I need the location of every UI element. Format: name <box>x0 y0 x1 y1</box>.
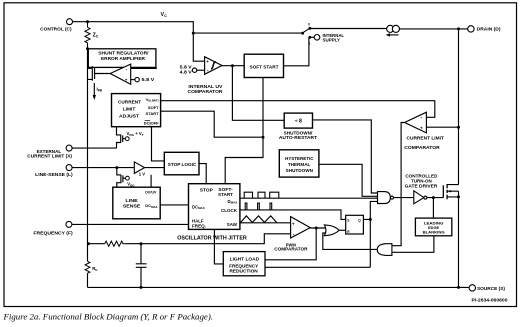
resistor frequency filter <box>105 241 126 246</box>
wire VC rail from CONTROL pin to UV comparator + input <box>73 22 205 62</box>
svg-text:COMPARATOR: COMPARATOR <box>404 145 440 150</box>
wire UV output down to divide-by-8 input <box>232 66 284 121</box>
label shutdown auto-restart <box>279 130 318 139</box>
wire VI(LIMIT) to current limit comparator <box>161 101 435 118</box>
svg-text:REDUCTION: REDUCTION <box>230 269 258 274</box>
wire DMAX output to NAND <box>240 197 378 199</box>
op-amp PWM comparator <box>291 217 311 238</box>
svg-text:THERMAL: THERMAL <box>288 162 311 167</box>
transistor output MOSFET Q1 <box>443 184 458 199</box>
pin DRAIN (D) <box>468 26 501 32</box>
node 5.8V/4.8V threshold terminal <box>180 64 205 74</box>
switch supply selector <box>301 22 311 45</box>
node source rail junction <box>457 286 460 289</box>
svg-text:SENSE: SENSE <box>123 203 141 208</box>
node line sense tap <box>115 166 118 169</box>
wire divide-by-8 output to NAND <box>313 120 378 193</box>
capacitor filter <box>136 244 147 288</box>
svg-text:+: + <box>206 59 209 64</box>
svg-text:PI-2634-060600: PI-2634-060600 <box>472 297 509 302</box>
wire LLFR to PWM output node <box>265 228 316 260</box>
svg-text:COMPARATOR: COMPARATOR <box>274 246 307 251</box>
latch PWM flip-flop <box>346 215 364 234</box>
svg-text:DRAIN (D): DRAIN (D) <box>477 27 501 32</box>
wire thermal shutdown to NAND <box>319 164 378 196</box>
svg-text:FREQUENCY (F): FREQUENCY (F) <box>33 231 73 236</box>
wire top drain rail <box>310 28 468 30</box>
wire comparator output to AND <box>392 123 405 246</box>
node latch Q junction <box>369 218 372 221</box>
wire left vertical control bus <box>87 43 89 261</box>
wire X pin to clamp <box>72 147 116 149</box>
wire RE to bottom rail <box>87 274 89 288</box>
op-amp error amplifier <box>110 64 131 84</box>
node current sense tap <box>457 126 460 129</box>
svg-text:SOFT START: SOFT START <box>250 64 279 69</box>
wire L pin to 1V buffer <box>72 167 134 169</box>
buffer 1V line sense <box>134 162 145 177</box>
node capacitor bottom <box>140 286 143 289</box>
node PWM output junction <box>315 227 318 230</box>
buffer gate driver <box>414 191 427 204</box>
svg-text:LIMIT: LIMIT <box>123 107 136 112</box>
wire buffer to stop logic <box>145 167 165 169</box>
svg-text:START: START <box>146 111 160 116</box>
current source ID <box>386 25 400 36</box>
wire PWM output to OR gate <box>310 227 326 229</box>
label internal UV comparator <box>188 84 224 94</box>
svg-text:SOFT: SOFT <box>148 105 159 110</box>
wire latch Q to NAND and LLFR <box>363 201 377 267</box>
svg-text:ERROR AMPLIFIER: ERROR AMPLIFIER <box>101 56 146 61</box>
node 5.8 V reference terminal <box>135 77 154 82</box>
svg-text:SOURCE (S): SOURCE (S) <box>477 286 506 291</box>
pin FREQUENCY (F) <box>33 221 73 235</box>
svg-text:BLANKING: BLANKING <box>423 229 445 234</box>
wire CLA soft start to junction <box>161 111 263 137</box>
svg-text:SUPPLY: SUPPLY <box>323 38 341 43</box>
wire error amp inverting input to box <box>131 67 157 68</box>
svg-text:CURRENT: CURRENT <box>118 100 141 105</box>
box divide by 8 <box>284 113 312 128</box>
svg-text:0: 0 <box>308 22 310 26</box>
wire OV/UV to stop logic <box>150 175 152 187</box>
svg-text:LIGHT LOAD: LIGHT LOAD <box>230 257 260 262</box>
node capacitor top <box>140 242 143 245</box>
nand-gate driver logic <box>378 192 394 204</box>
wire source vertical to rail <box>458 191 460 287</box>
node shunt box corner junction <box>86 47 89 50</box>
wire soft start bottom to oscillator soft-start input <box>225 78 263 184</box>
resistor ZC <box>85 22 90 44</box>
box CURRENT LIMIT ADJUST <box>112 94 161 127</box>
svg-text:COMPARATOR: COMPARATOR <box>188 89 224 94</box>
svg-text:SHUNT REGULATOR/: SHUNT REGULATOR/ <box>98 51 149 56</box>
node MOSFET body contact <box>449 190 451 192</box>
box STOP LOGIC <box>164 152 199 175</box>
label current limit comparator <box>404 136 444 151</box>
resistor RE <box>85 261 90 273</box>
box LIGHT LOAD FREQUENCY REDUCTION <box>223 252 265 276</box>
and-gate current limit AND (points left) <box>377 244 392 256</box>
pin EXTERNAL CURRENT LIMIT (X) <box>27 145 72 158</box>
op-amp current limit comparator <box>405 112 427 133</box>
waveform DMAX square wave <box>244 192 279 198</box>
label controlled turn-on gate driver <box>405 174 439 189</box>
svg-text:÷ 8: ÷ 8 <box>295 119 302 125</box>
node resistor junction <box>87 242 90 245</box>
svg-text:1: 1 <box>309 41 311 45</box>
wire comparator + input from drain sense <box>426 126 458 128</box>
wire drain vertical <box>458 29 460 185</box>
wire frequency set RC to PWM inverting input <box>88 234 290 244</box>
svg-text:OSCILLATOR WITH JITTER: OSCILLATOR WITH JITTER <box>177 235 247 241</box>
arrow IFB feedback current <box>93 83 103 100</box>
transistor line sense clamp VBG <box>117 168 136 188</box>
svg-text:GATE DRIVER: GATE DRIVER <box>405 184 439 189</box>
svg-text:+: + <box>292 221 295 226</box>
node MOSFET source junction <box>457 195 460 198</box>
svg-text:+: + <box>125 78 128 83</box>
wire CLOCK output to latch set <box>240 210 346 220</box>
wire UV comparator output to soft start <box>222 65 244 67</box>
svg-text:HYSTERETIC: HYSTERETIC <box>285 156 313 161</box>
wire stop logic output to oscillator <box>199 164 206 184</box>
svg-text:CURRENT LIMIT: CURRENT LIMIT <box>407 136 445 141</box>
node ZC tap <box>86 20 89 23</box>
svg-text:4.8 V: 4.8 V <box>180 69 192 74</box>
waveform clock pulses <box>245 203 272 210</box>
node VC junction <box>192 32 195 35</box>
box LEADING EDGE BLANKING <box>415 218 451 236</box>
op-amp internal UV comparator U2 <box>205 57 222 75</box>
or-gate latch reset OR <box>324 225 339 236</box>
svg-text:STOP: STOP <box>200 187 213 192</box>
box LINE SENSE <box>113 187 160 219</box>
box HYSTERETIC THERMAL SHUTDOWN <box>279 150 319 177</box>
wire AND output to OR input <box>323 233 377 249</box>
node drain junction <box>457 27 460 30</box>
svg-text:STOP LOGIC: STOP LOGIC <box>168 162 197 167</box>
pin CONTROL (C) <box>40 19 72 32</box>
wire SAW output to PWM comparator <box>240 222 291 224</box>
wire to supply switch <box>193 32 302 34</box>
label PWM comparator <box>274 243 307 252</box>
svg-text:S: S <box>347 219 349 223</box>
wire gate node to LEB <box>432 198 434 219</box>
waveform sawtooth <box>241 216 277 223</box>
svg-text:CLOCK: CLOCK <box>221 208 238 213</box>
svg-text:OV/UV: OV/UV <box>145 190 157 194</box>
svg-text:AUTO-RESTART: AUTO-RESTART <box>279 135 318 140</box>
svg-text:START: START <box>218 192 233 197</box>
transistor external limit clamp VBG+VT <box>117 127 144 148</box>
svg-text:SHUTDOWN: SHUTDOWN <box>286 168 313 173</box>
wire LLFR to latch node <box>265 266 370 268</box>
svg-text:CURRENT LIMIT (X): CURRENT LIMIT (X) <box>27 153 72 158</box>
pin LINE-SENSE (L) <box>35 165 73 177</box>
svg-text:5.8 V: 5.8 V <box>142 77 155 82</box>
svg-text:LINE-SENSE (L): LINE-SENSE (L) <box>35 172 73 177</box>
wire error amp + input <box>131 79 135 81</box>
wire CLA to stop logic <box>152 127 165 161</box>
wire soft start output to supply switch node <box>284 37 309 66</box>
wire LEB to AND input <box>392 236 434 253</box>
pin SOURCE (S) <box>469 285 505 291</box>
wire oscillator bottom to LLFR <box>214 229 223 264</box>
svg-text:LINE: LINE <box>125 198 138 203</box>
node UV output junction <box>231 64 234 67</box>
wire bottom source rail <box>88 286 470 288</box>
svg-text:ADJUST: ADJUST <box>119 114 139 119</box>
wire OR to latch R input <box>339 229 346 231</box>
transistor shunt regulator MOSFET <box>88 66 111 80</box>
svg-text:SAW: SAW <box>227 222 238 227</box>
svg-text:CONTROL (C): CONTROL (C) <box>40 27 72 32</box>
wire NAND output to gate driver buffer <box>394 197 414 199</box>
svg-text:DC|OFF: DC|OFF <box>144 121 159 126</box>
svg-text:Figure 2a. Functional Block Di: Figure 2a. Functional Block Diagram (Y, … <box>2 312 213 322</box>
svg-text:1 V: 1 V <box>139 172 145 177</box>
box SOFT START <box>244 54 283 77</box>
pin INTERNAL SUPPLY <box>310 33 344 43</box>
svg-text:+: + <box>420 126 423 131</box>
node soft start adjust junction <box>262 136 265 139</box>
svg-text:FREQ.: FREQ. <box>192 223 206 228</box>
wire F pin to oscillator half freq <box>72 223 189 225</box>
node gate drive junction <box>432 196 435 199</box>
box shunt regulator / error amplifier <box>88 49 156 68</box>
box OSCILLATOR WITH JITTER <box>189 184 240 230</box>
wire driver output to MOSFET gate <box>427 197 443 199</box>
wire DCMAX to oscillator <box>160 204 188 206</box>
